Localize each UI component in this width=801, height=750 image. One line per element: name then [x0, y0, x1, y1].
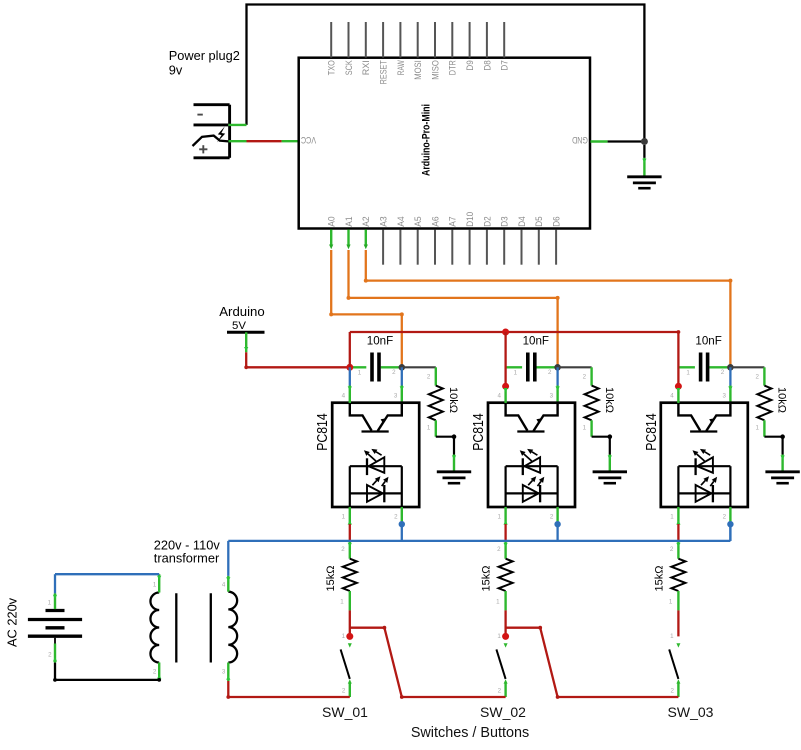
svg-text:15kΩ: 15kΩ	[325, 566, 337, 592]
svg-text:2: 2	[427, 374, 431, 381]
svg-text:A7: A7	[448, 216, 459, 226]
svg-text:D3: D3	[500, 216, 511, 226]
svg-text:A4: A4	[396, 216, 407, 227]
svg-text:1: 1	[358, 370, 362, 377]
svg-text:Power plug2: Power plug2	[169, 48, 240, 63]
svg-text:A3: A3	[379, 216, 390, 226]
svg-text:2: 2	[341, 546, 345, 553]
svg-text:Arduino: Arduino	[219, 304, 264, 319]
svg-text:2: 2	[48, 652, 52, 659]
svg-text:RESET: RESET	[379, 60, 390, 84]
svg-text:9v: 9v	[169, 63, 183, 78]
svg-text:SCK: SCK	[344, 60, 355, 75]
svg-text:RXI: RXI	[361, 60, 372, 75]
svg-text:1: 1	[342, 514, 346, 521]
svg-text:transformer: transformer	[154, 551, 220, 566]
svg-text:D4: D4	[517, 216, 528, 227]
svg-text:MISO: MISO	[430, 60, 441, 80]
svg-text:10nF: 10nF	[367, 335, 393, 348]
svg-text:DTR: DTR	[448, 60, 459, 75]
svg-text:D8: D8	[482, 60, 493, 70]
svg-text:4: 4	[222, 582, 226, 589]
svg-text:A1: A1	[344, 216, 355, 226]
svg-text:D10: D10	[465, 212, 476, 227]
svg-text:SW_03: SW_03	[668, 704, 714, 720]
svg-text:Arduino-Pro-Mini: Arduino-Pro-Mini	[421, 104, 433, 176]
svg-text:A2: A2	[361, 216, 372, 226]
svg-text:D6: D6	[552, 216, 563, 226]
svg-text:2: 2	[394, 514, 398, 521]
svg-text:VCC: VCC	[301, 134, 316, 145]
svg-text:AC 220v: AC 220v	[5, 597, 20, 647]
svg-text:10kΩ: 10kΩ	[447, 387, 459, 413]
svg-text:PC814: PC814	[315, 413, 331, 451]
svg-text:1: 1	[48, 600, 52, 607]
svg-text:2: 2	[153, 669, 157, 676]
svg-text:4: 4	[342, 392, 346, 399]
svg-text:5V: 5V	[232, 320, 246, 332]
svg-text:SW_01: SW_01	[322, 704, 368, 720]
svg-text:A0: A0	[327, 216, 338, 226]
svg-text:MOSI: MOSI	[413, 60, 424, 80]
svg-text:D7: D7	[500, 60, 511, 70]
svg-text:1: 1	[340, 599, 344, 606]
svg-text:1: 1	[427, 425, 431, 432]
svg-text:3: 3	[222, 669, 226, 676]
svg-text:A5: A5	[413, 216, 424, 226]
svg-text:SW_02: SW_02	[480, 704, 526, 720]
svg-text:Switches / Buttons: Switches / Buttons	[411, 725, 529, 741]
svg-text:A6: A6	[430, 216, 441, 226]
svg-text:D2: D2	[482, 216, 493, 226]
svg-text:2: 2	[392, 369, 396, 376]
svg-text:3: 3	[394, 392, 398, 399]
svg-text:GND: GND	[572, 134, 588, 145]
svg-text:D5: D5	[534, 216, 545, 226]
svg-text:D9: D9	[465, 60, 476, 70]
svg-text:RAW: RAW	[396, 60, 407, 76]
svg-text:1: 1	[342, 633, 346, 640]
svg-text:1: 1	[153, 582, 157, 589]
svg-text:2: 2	[342, 687, 346, 694]
svg-text:TXO: TXO	[327, 60, 338, 75]
